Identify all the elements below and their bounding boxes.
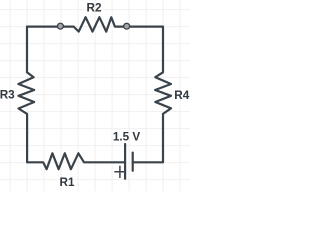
svg-text:R1: R1 bbox=[60, 176, 75, 189]
svg-text:1.5 V: 1.5 V bbox=[113, 130, 140, 143]
svg-text:R3: R3 bbox=[0, 89, 15, 102]
svg-text:R2: R2 bbox=[87, 1, 102, 14]
svg-text:R4: R4 bbox=[174, 89, 189, 102]
